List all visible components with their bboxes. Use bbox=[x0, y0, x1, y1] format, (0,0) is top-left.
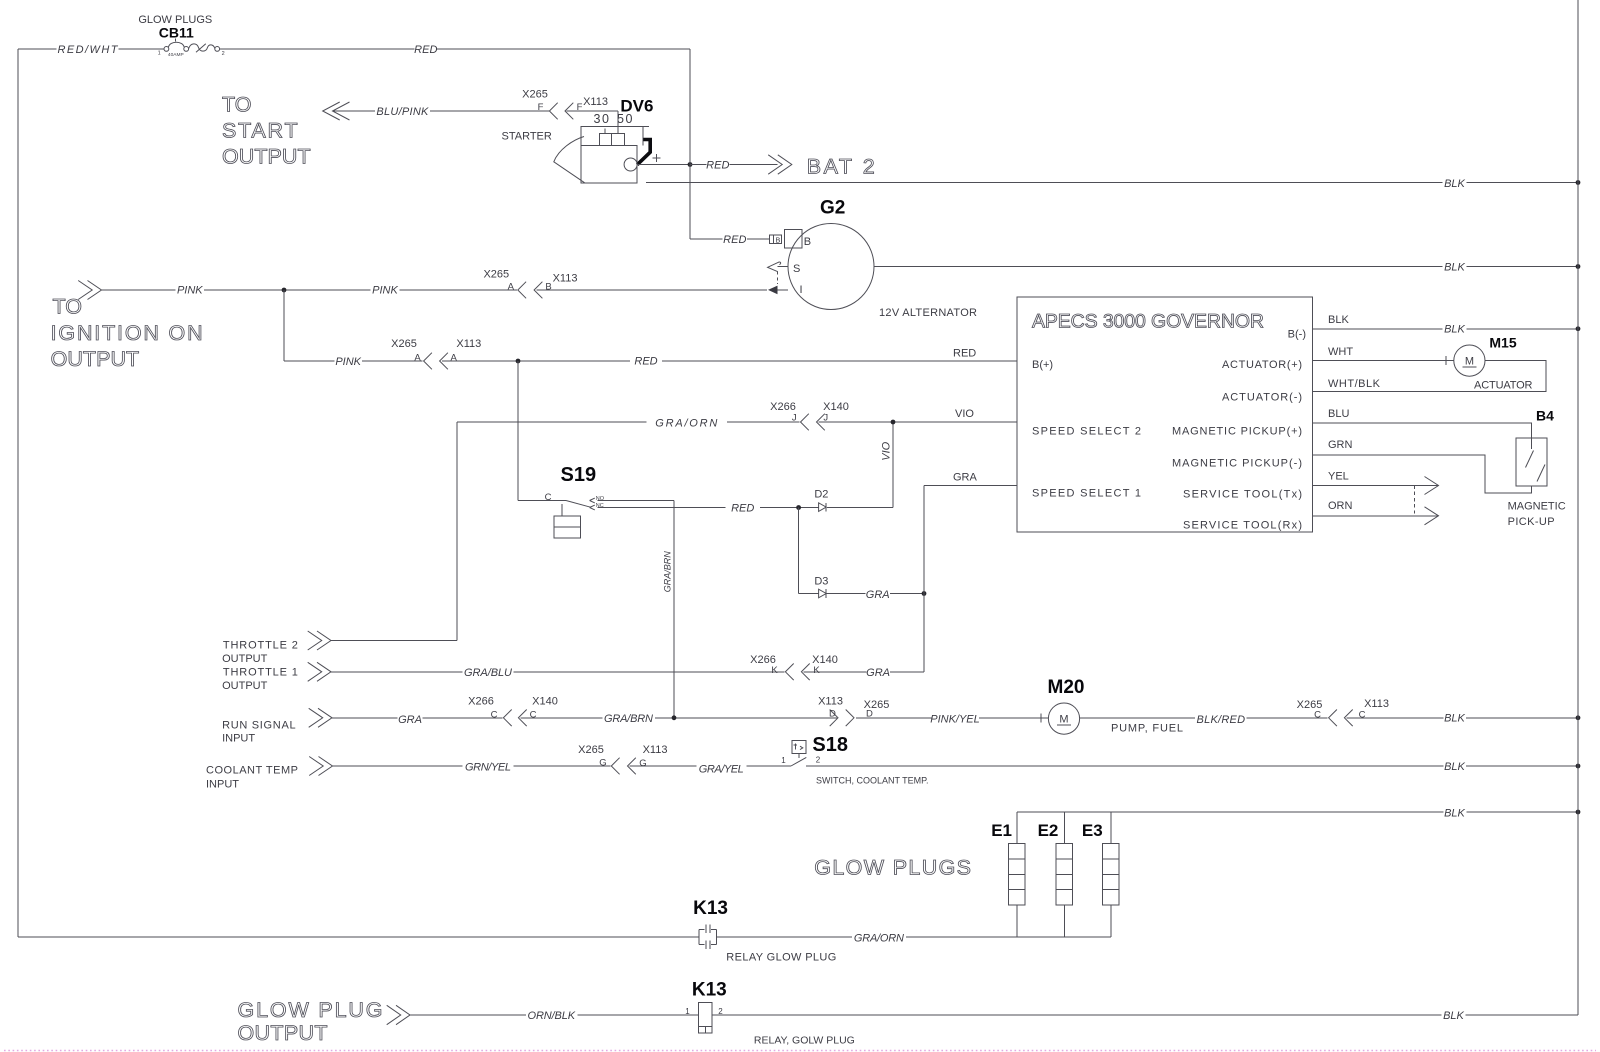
wire RED to G2 B terminal bbox=[690, 238, 770, 240]
svg-text:ACTUATOR(+): ACTUATOR(+) bbox=[1222, 359, 1302, 371]
wire S19 NO to run signal junction bbox=[598, 501, 675, 718]
svg-text:E2: E2 bbox=[1038, 821, 1059, 840]
node junction RED at x518 bbox=[516, 359, 521, 364]
node junction BLK at bus bbox=[1576, 180, 1581, 185]
svg-text:C: C bbox=[545, 492, 552, 503]
svg-text:X113: X113 bbox=[818, 695, 843, 707]
arrow chevrons throttle 2 bbox=[308, 631, 331, 650]
arrow chevrons ignition output bbox=[78, 281, 101, 300]
wire GRN magnetic pickup- bbox=[1312, 455, 1531, 493]
wire E2 bottom lead bbox=[1063, 905, 1065, 937]
connector X265 pin D arrow bbox=[846, 710, 854, 727]
svg-text:PICK-UP: PICK-UP bbox=[1508, 516, 1555, 528]
svg-text:ORN: ORN bbox=[1328, 500, 1353, 512]
svg-text:IGNITION ON: IGNITION ON bbox=[51, 321, 203, 345]
svg-text:BLK: BLK bbox=[1444, 178, 1465, 190]
arrow chevrons to start output bbox=[323, 102, 350, 120]
svg-text:GRA/BRN: GRA/BRN bbox=[663, 551, 673, 593]
svg-text:GLOW PLUG: GLOW PLUG bbox=[238, 998, 383, 1022]
wire BLK from starter to right bus bbox=[646, 182, 1578, 184]
wire left rail vertical and bottom run to K13 bbox=[18, 49, 699, 937]
wire vertical to D3 bbox=[798, 508, 800, 594]
node junction BLK at bus bbox=[1576, 264, 1581, 269]
governor box U1 APECS 3000 bbox=[1017, 297, 1312, 532]
svg-text:M: M bbox=[1465, 356, 1474, 368]
wire vertical x518 to S19 bbox=[517, 361, 519, 501]
wire B(-) BLK to right bus bbox=[1312, 328, 1578, 330]
svg-text:X265: X265 bbox=[522, 89, 548, 101]
svg-text:RED: RED bbox=[706, 159, 729, 171]
connector X266 pin J arrow bbox=[801, 414, 809, 431]
svg-text:M20: M20 bbox=[1048, 677, 1085, 698]
node junction run signal bbox=[672, 715, 677, 720]
wire coolant temp input bbox=[333, 765, 792, 767]
svg-text:VIO: VIO bbox=[881, 441, 893, 460]
svg-text:G: G bbox=[599, 757, 606, 768]
svg-text:X265: X265 bbox=[864, 699, 890, 711]
wire E1 top lead bbox=[1016, 812, 1018, 843]
arrow YEL bbox=[1425, 477, 1439, 495]
node junction PINK bbox=[282, 288, 287, 293]
svg-text:F: F bbox=[577, 102, 583, 113]
wire WHT actuator+ bbox=[1312, 356, 1453, 365]
label + (M20) bbox=[1040, 714, 1042, 723]
arrow chevrons BAT 2 bbox=[768, 155, 792, 174]
big text TO IGNITION ON OUTPUT bbox=[51, 295, 203, 371]
svg-text:J: J bbox=[792, 413, 797, 424]
connector X266 pin C arrow bbox=[503, 710, 511, 727]
svg-text:30: 30 bbox=[594, 112, 611, 126]
svg-text:GRA/BRN: GRA/BRN bbox=[604, 713, 653, 725]
svg-text:VIO: VIO bbox=[955, 408, 974, 420]
glow plug E2 bbox=[1056, 843, 1073, 905]
svg-text:GRA/YEL: GRA/YEL bbox=[699, 763, 744, 775]
svg-text:C: C bbox=[1314, 709, 1321, 720]
svg-text:BLK: BLK bbox=[1444, 807, 1465, 819]
connector X140 pin K arrow bbox=[801, 664, 809, 681]
svg-text:SERVICE TOOL(Rx): SERVICE TOOL(Rx) bbox=[1183, 520, 1302, 532]
svg-text:BLU/PINK: BLU/PINK bbox=[376, 106, 429, 118]
svg-text:APECS 3000 GOVERNOR: APECS 3000 GOVERNOR bbox=[1032, 311, 1264, 333]
svg-text:K: K bbox=[771, 665, 778, 676]
svg-text:BLK: BLK bbox=[1328, 314, 1349, 326]
wire dashed Tx-Rx link bbox=[1414, 486, 1416, 516]
svg-text:S18: S18 bbox=[812, 734, 848, 756]
svg-text:STARTER: STARTER bbox=[502, 130, 552, 142]
svg-text:B(+): B(+) bbox=[1032, 359, 1053, 371]
connector X265 pin F arrow bbox=[549, 103, 557, 120]
svg-text:RED: RED bbox=[723, 234, 746, 246]
svg-text:PINK: PINK bbox=[372, 285, 398, 297]
svg-text:BLK/RED: BLK/RED bbox=[1197, 714, 1246, 726]
node junction at x690 bbox=[688, 162, 693, 167]
wire GRA from D3 to x924 bbox=[826, 593, 924, 595]
svg-text:A: A bbox=[451, 352, 458, 363]
svg-text:PINK: PINK bbox=[335, 356, 361, 368]
svg-text:D: D bbox=[829, 709, 836, 720]
svg-text:BLU: BLU bbox=[1328, 408, 1349, 420]
svg-text:RED: RED bbox=[634, 356, 657, 368]
wire run signal input bbox=[332, 717, 1048, 719]
connector X113 pin C arrow (right) bbox=[1344, 710, 1352, 727]
svg-text:X266: X266 bbox=[468, 695, 494, 707]
svg-text:X140: X140 bbox=[823, 401, 849, 413]
svg-text:B4: B4 bbox=[1536, 408, 1554, 424]
connector X265 pin C arrow (right) bbox=[1329, 710, 1337, 727]
svg-text:G: G bbox=[639, 758, 646, 769]
svg-text:C: C bbox=[530, 709, 537, 720]
diode D2 bbox=[819, 503, 827, 512]
svg-text:RELAY, GOLW PLUG: RELAY, GOLW PLUG bbox=[754, 1034, 855, 1046]
svg-text:X265: X265 bbox=[483, 269, 509, 281]
svg-text:NC: NC bbox=[596, 503, 604, 509]
svg-text:GRA: GRA bbox=[953, 471, 978, 483]
svg-text:E3: E3 bbox=[1082, 821, 1103, 840]
svg-text:SERVICE TOOL(Tx): SERVICE TOOL(Tx) bbox=[1183, 489, 1302, 501]
svg-text:RED: RED bbox=[731, 503, 754, 515]
wire vertical x284 PINK bbox=[283, 290, 285, 361]
connector X265 pin A arrow (lower) bbox=[424, 353, 432, 370]
node junction coolant at bus bbox=[1576, 764, 1581, 769]
svg-text:TO: TO bbox=[53, 295, 82, 319]
svg-text:GRA: GRA bbox=[398, 714, 422, 726]
svg-text:X266: X266 bbox=[770, 401, 796, 413]
wire E3 bottom lead bbox=[1110, 905, 1112, 937]
svg-text:SPEED SELECT 2: SPEED SELECT 2 bbox=[1032, 426, 1141, 438]
arrow hook at S terminal bbox=[768, 262, 781, 272]
wire I terminal stub bbox=[778, 289, 789, 291]
svg-text:START: START bbox=[222, 118, 298, 142]
switch S18 coolant temp bbox=[791, 740, 806, 766]
svg-text:ACTUATOR: ACTUATOR bbox=[1474, 379, 1533, 391]
svg-text:BLK: BLK bbox=[1444, 761, 1465, 773]
svg-text:B: B bbox=[804, 236, 811, 248]
wire BLU magnetic pickup+ bbox=[1312, 423, 1531, 438]
svg-text:GRN: GRN bbox=[1328, 439, 1353, 451]
svg-text:THROTTLE 1: THROTTLE 1 bbox=[223, 666, 298, 678]
svg-text:B(-): B(-) bbox=[1288, 328, 1306, 340]
magnetic pickup B4 bbox=[1516, 438, 1547, 486]
svg-text:C: C bbox=[1359, 709, 1366, 720]
svg-text:M15: M15 bbox=[1489, 334, 1516, 350]
wire WHT/BLK actuator- loop bbox=[1312, 361, 1546, 392]
svg-text:PUMP, FUEL: PUMP, FUEL bbox=[1111, 722, 1183, 734]
svg-text:X113: X113 bbox=[456, 338, 481, 350]
node junction glow top at bus bbox=[1576, 810, 1581, 815]
svg-text:GRA/BLU: GRA/BLU bbox=[464, 667, 512, 679]
svg-text:C: C bbox=[491, 709, 498, 720]
svg-text:40AMP: 40AMP bbox=[168, 52, 184, 58]
svg-text:ORN/BLK: ORN/BLK bbox=[528, 1010, 576, 1022]
alternator G2 bbox=[770, 224, 875, 310]
node junction GRA at x924 bbox=[922, 591, 927, 596]
svg-text:WHT: WHT bbox=[1328, 346, 1353, 358]
svg-text:F: F bbox=[538, 102, 544, 113]
wire throttle 2 output bbox=[331, 640, 457, 642]
node junction B- at bus bbox=[1576, 326, 1581, 331]
connector X113 pin D arrow bbox=[830, 710, 838, 727]
wire VIO speed select 2 bbox=[457, 421, 1017, 423]
wire dashed S to I bbox=[777, 272, 779, 285]
svg-text:OUTPUT: OUTPUT bbox=[51, 347, 140, 371]
svg-text:OUTPUT: OUTPUT bbox=[222, 653, 268, 665]
svg-text:12V ALTERNATOR: 12V ALTERNATOR bbox=[879, 307, 977, 319]
arrow chevrons glow plug output bbox=[387, 1005, 410, 1024]
svg-text:SPEED SELECT 1: SPEED SELECT 1 bbox=[1032, 488, 1141, 500]
wire E2 top lead bbox=[1063, 812, 1065, 843]
wire E3 top lead bbox=[1110, 812, 1112, 843]
svg-text:GRN/YEL: GRN/YEL bbox=[465, 761, 511, 773]
starter motor DV6 bbox=[554, 111, 650, 183]
svg-text:THROTTLE 2: THROTTLE 2 bbox=[223, 639, 298, 651]
svg-text:GRA: GRA bbox=[866, 667, 890, 679]
arrow ORN bbox=[1425, 507, 1439, 525]
node junction run at bus bbox=[1576, 715, 1581, 720]
svg-text:INPUT: INPUT bbox=[206, 778, 239, 790]
svg-text:MAGNETIC PICKUP(-): MAGNETIC PICKUP(-) bbox=[1172, 458, 1302, 470]
connector X140 pin J arrow bbox=[817, 414, 825, 431]
wire S19 NC RED to D2 bbox=[598, 507, 894, 509]
svg-text:J: J bbox=[823, 413, 828, 424]
wire S terminal stub bbox=[778, 266, 789, 268]
arrow chevrons run signal bbox=[309, 708, 332, 727]
connector X113 pin F arrow bbox=[565, 103, 573, 120]
switch S19 bbox=[518, 498, 595, 538]
svg-text:1: 1 bbox=[781, 756, 786, 765]
svg-text:S19: S19 bbox=[561, 464, 597, 486]
svg-text:PINK/YEL: PINK/YEL bbox=[930, 713, 980, 725]
wire right BLK bus bbox=[1577, 0, 1579, 1015]
wire starter to BAT 2 junction bbox=[637, 164, 690, 166]
relay contact K13 bbox=[699, 925, 717, 949]
svg-text:MAGNETIC: MAGNETIC bbox=[1508, 501, 1566, 513]
fuel pump M20 bbox=[1048, 703, 1079, 734]
wire vertical x690 bbox=[689, 49, 691, 239]
svg-text:E1: E1 bbox=[991, 821, 1012, 840]
svg-text:A: A bbox=[508, 281, 515, 292]
connector X113 pin B arrow bbox=[534, 282, 542, 299]
label + (starter positive) bbox=[653, 154, 661, 162]
svg-text:D2: D2 bbox=[814, 489, 828, 501]
svg-text:GRA: GRA bbox=[866, 589, 890, 601]
svg-text:WHT/BLK: WHT/BLK bbox=[1328, 378, 1381, 390]
svg-text:RUN SIGNAL: RUN SIGNAL bbox=[222, 719, 296, 731]
glow plug E1 bbox=[1009, 843, 1025, 905]
svg-text:D3: D3 bbox=[814, 575, 828, 587]
wire PINK ignition line bbox=[102, 289, 768, 291]
node junction at D2 branch bbox=[796, 505, 801, 510]
svg-text:OUTPUT: OUTPUT bbox=[238, 1021, 328, 1045]
big text GLOW PLUG OUTPUT bbox=[238, 998, 383, 1045]
connector X113 pin G arrow bbox=[628, 758, 636, 775]
svg-text:CB11: CB11 bbox=[159, 25, 194, 41]
relay coil K13 bbox=[699, 1002, 713, 1033]
svg-text:B: B bbox=[545, 282, 551, 293]
svg-text:SWITCH, COOLANT TEMP.: SWITCH, COOLANT TEMP. bbox=[816, 776, 929, 786]
svg-text:X113: X113 bbox=[583, 96, 608, 108]
svg-text:MAGNETIC PICKUP(+): MAGNETIC PICKUP(+) bbox=[1172, 426, 1302, 438]
svg-text:S: S bbox=[793, 263, 800, 275]
svg-text:X265: X265 bbox=[578, 744, 604, 756]
svg-text:X140: X140 bbox=[812, 654, 838, 666]
wire GRA/ORN contact to glow plugs bbox=[717, 936, 1111, 938]
big text TO START OUTPUT bbox=[222, 93, 311, 169]
svg-text:BAT 2: BAT 2 bbox=[807, 155, 875, 179]
svg-text:X113: X113 bbox=[553, 273, 578, 285]
svg-text:X140: X140 bbox=[532, 695, 558, 707]
svg-text:G2: G2 bbox=[820, 198, 845, 219]
svg-text:K13: K13 bbox=[693, 898, 728, 919]
wire S18 to right bus BLK bbox=[806, 765, 1578, 767]
svg-text:X113: X113 bbox=[1364, 698, 1389, 710]
svg-text:RED: RED bbox=[953, 347, 976, 359]
svg-text:BLK: BLK bbox=[1444, 713, 1465, 725]
svg-text:OUTPUT: OUTPUT bbox=[222, 145, 311, 169]
glow plug E3 bbox=[1103, 843, 1120, 905]
svg-text:BLK: BLK bbox=[1444, 261, 1465, 273]
svg-text:B: B bbox=[776, 235, 781, 244]
svg-text:1: 1 bbox=[685, 1007, 690, 1016]
arrow chevrons throttle 1 bbox=[308, 662, 331, 681]
wire GRA speed select 1 bbox=[924, 486, 1017, 672]
wire E1 bottom lead bbox=[1016, 905, 1018, 937]
wire M20 to right bus BLK bbox=[1080, 717, 1578, 719]
wire vertical x893 VIO bbox=[892, 422, 894, 508]
svg-text:RED: RED bbox=[414, 44, 437, 56]
wire BLK glow plug top feed bbox=[1017, 811, 1578, 813]
svg-text:PINK: PINK bbox=[177, 285, 203, 297]
wire coil to right bus bbox=[712, 1014, 1578, 1016]
svg-text:YEL: YEL bbox=[1328, 471, 1349, 483]
svg-text:OUTPUT: OUTPUT bbox=[222, 680, 268, 692]
wire vertical x457 to throttle 2 bbox=[456, 422, 458, 641]
svg-text:2: 2 bbox=[222, 51, 225, 57]
svg-text:K: K bbox=[813, 665, 820, 676]
svg-text:M: M bbox=[1059, 714, 1068, 726]
connector X140 pin C arrow bbox=[518, 710, 526, 727]
wire BLK from G2 to right bus bbox=[874, 266, 1578, 268]
connector X113 pin A arrow (lower) bbox=[440, 353, 448, 370]
wire ORN/BLK glow plug output bbox=[410, 1014, 699, 1016]
svg-text:RELAY GLOW PLUG: RELAY GLOW PLUG bbox=[726, 951, 836, 963]
diode D3 bbox=[799, 589, 827, 598]
svg-text:A: A bbox=[414, 352, 421, 363]
wire RED to BAT 2 bbox=[690, 164, 778, 166]
arrowhead into I terminal bbox=[768, 286, 778, 295]
wire ORN service tool Rx bbox=[1312, 515, 1438, 517]
svg-text:K13: K13 bbox=[692, 979, 727, 1000]
node junction VIO bbox=[891, 420, 896, 425]
actuator motor M15 bbox=[1454, 345, 1485, 376]
page boundary dotted line bbox=[4, 1050, 1596, 1052]
arrow chevrons coolant temp bbox=[309, 757, 332, 776]
svg-text:GRA/ORN: GRA/ORN bbox=[854, 932, 904, 944]
connector X265 pin A arrow bbox=[518, 282, 526, 299]
svg-text:X113: X113 bbox=[643, 744, 668, 756]
wire YEL service tool Tx bbox=[1312, 485, 1438, 487]
svg-text:X265: X265 bbox=[391, 338, 417, 350]
connector X265 pin G arrow bbox=[611, 758, 619, 775]
svg-text:BLK: BLK bbox=[1443, 1010, 1464, 1022]
wire PINK to governor B(+) bbox=[284, 360, 1017, 362]
svg-text:GLOW PLUGS: GLOW PLUGS bbox=[814, 856, 971, 880]
svg-text:I: I bbox=[800, 284, 803, 296]
svg-text:ACTUATOR(-): ACTUATOR(-) bbox=[1222, 391, 1302, 403]
wire top RED/WHT-RED rail bbox=[18, 48, 690, 50]
svg-text:BLK: BLK bbox=[1444, 324, 1465, 336]
svg-text:1: 1 bbox=[158, 51, 161, 57]
circuit breaker CB11 bbox=[164, 39, 220, 53]
svg-text:2: 2 bbox=[816, 756, 821, 765]
wire BLU/PINK to starter bbox=[333, 110, 619, 112]
svg-text:INPUT: INPUT bbox=[222, 732, 255, 744]
svg-text:50: 50 bbox=[617, 112, 634, 126]
wire throttle 1 output GRA/BLU bbox=[331, 671, 924, 673]
svg-text:TO: TO bbox=[222, 93, 251, 117]
connector X266 pin K arrow bbox=[785, 664, 793, 681]
svg-text:COOLANT TEMP: COOLANT TEMP bbox=[206, 765, 298, 777]
